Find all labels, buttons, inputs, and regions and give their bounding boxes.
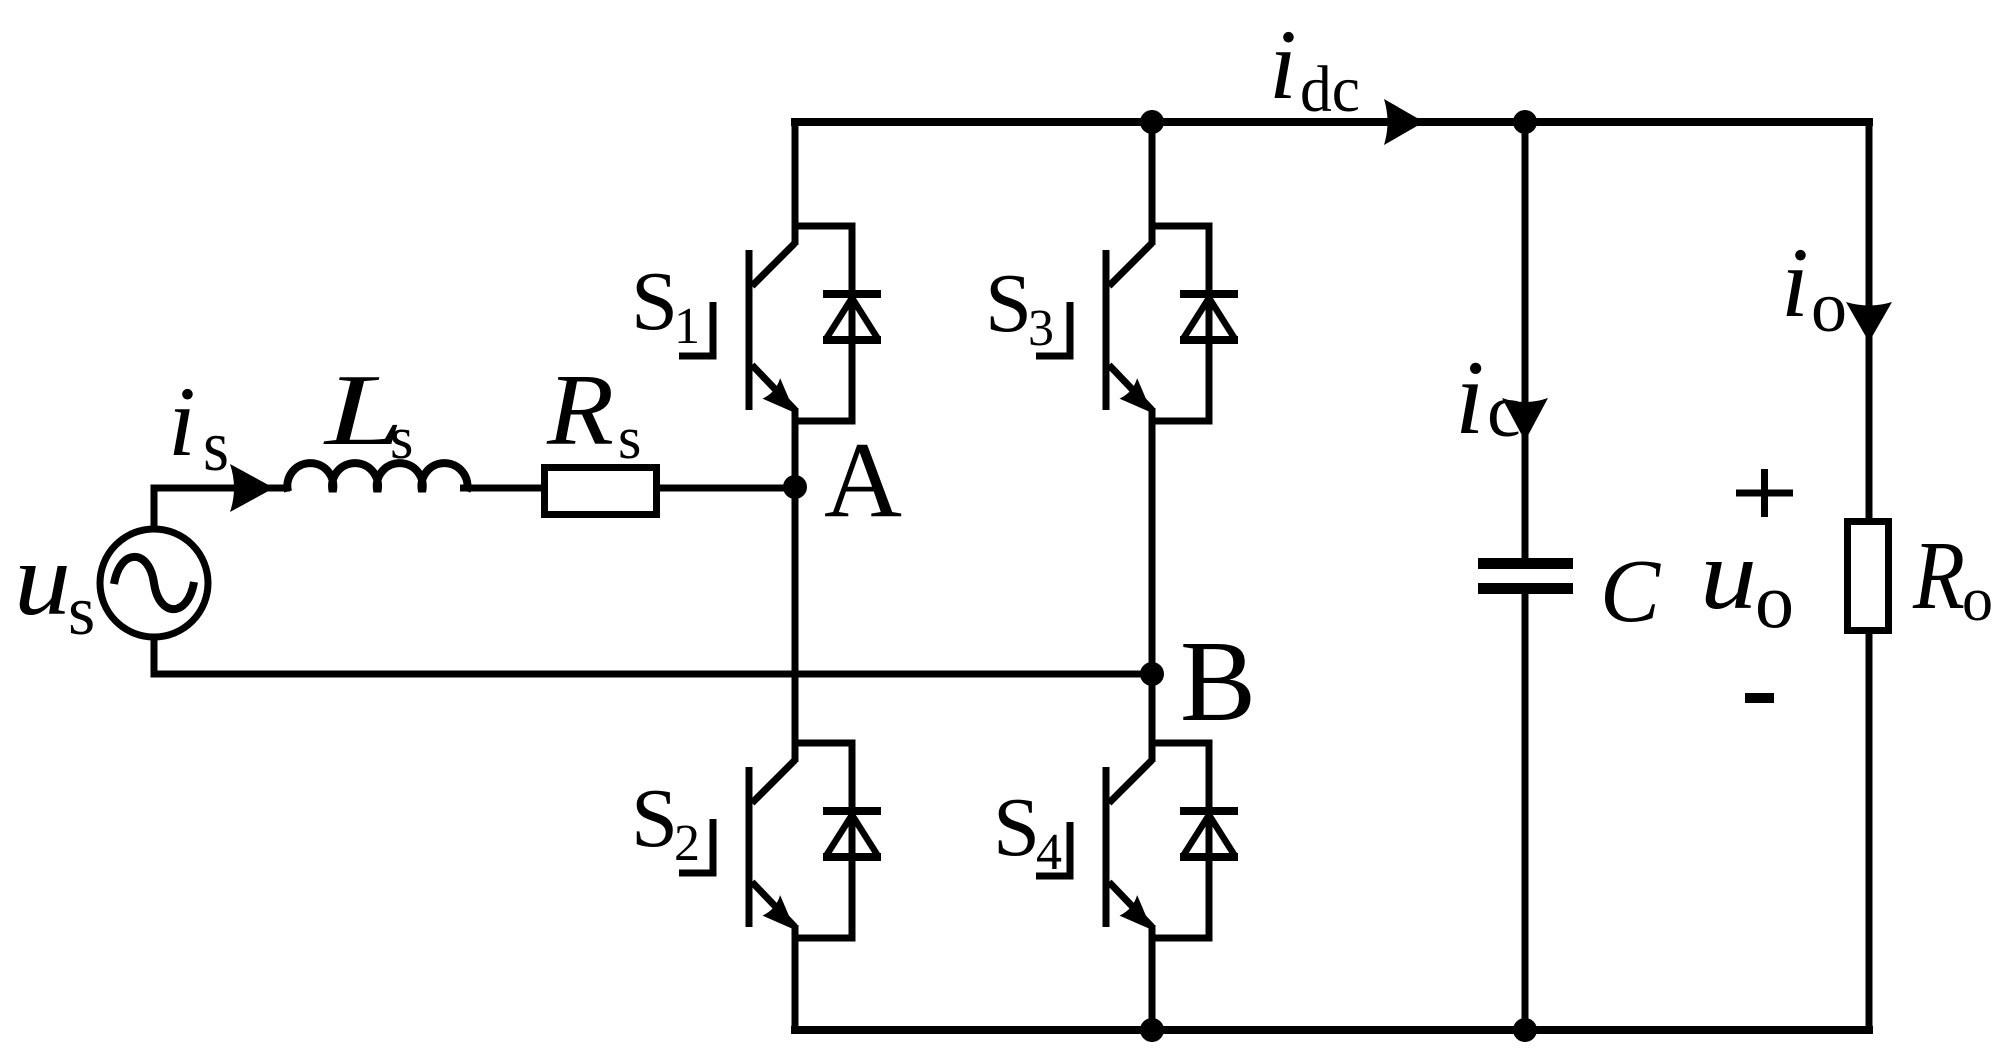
svg-text:S: S [993, 781, 1040, 874]
wire: right bridge leg lower segment (S4 emitter to bottom bus) [1149, 925, 1156, 1033]
wire: ac line between Rs and node A [656, 485, 795, 492]
svg-text:s: s [203, 406, 229, 486]
svg-text:2: 2 [674, 815, 700, 872]
wire: left bridge leg middle segment (S1 emitter through node A to S2 collector) [792, 408, 799, 762]
svg-text:C: C [1600, 542, 1661, 641]
svg-text:i: i [1781, 227, 1809, 338]
gate hook of S4 [1036, 822, 1070, 876]
wire: capacitor branch upper segment [1522, 122, 1529, 559]
resistor Rs [545, 468, 657, 515]
wire: bottom dc bus [791, 1026, 1873, 1034]
wire: left bridge leg upper segment (top bus to S1 collector) [792, 118, 799, 245]
svg-text:S: S [631, 255, 678, 348]
svg-text:i: i [168, 366, 196, 477]
transistor S1 (IGBT with anti-parallel diode) [749, 226, 881, 422]
svg-text:o: o [1962, 566, 1993, 634]
gate hook of S3 [1036, 302, 1070, 356]
wire: load branch upper segment (top bus to Ro) [1866, 118, 1873, 521]
wire: ac source bottom lead and return wire to node B [154, 637, 1152, 674]
svg-text:o: o [1755, 557, 1794, 644]
wire: right bridge leg middle segment (S3 emitter through node B to S4 collector) [1149, 408, 1156, 762]
plus sign of uo [1736, 469, 1793, 517]
svg-text:i: i [1269, 9, 1297, 120]
svg-text:i: i [1455, 339, 1484, 456]
arrow ic (capacitor current) [1502, 398, 1548, 441]
source us (ac voltage source circle) [100, 529, 208, 637]
wire: load branch lower segment (Ro to bottom bus) [1866, 631, 1873, 1033]
gate hook of S2 [679, 819, 713, 873]
wire: left bridge leg lower segment (S2 emitter to bottom bus) [792, 925, 799, 1033]
svg-text:u: u [14, 522, 71, 637]
node B junction dot [1140, 662, 1164, 686]
node dot top bus at right leg [1140, 110, 1164, 134]
svg-text:u: u [1700, 519, 1757, 630]
svg-text:s: s [618, 405, 641, 471]
svg-text:3: 3 [1028, 300, 1054, 357]
wire: ac source top lead [154, 488, 290, 530]
transistor S4 (IGBT with anti-parallel diode) [1106, 743, 1238, 939]
svg-text:dc: dc [1300, 53, 1360, 126]
svg-text:B: B [1180, 618, 1256, 746]
inductor Ls [287, 463, 467, 491]
svg-text:S: S [631, 772, 678, 865]
svg-text:c: c [1487, 369, 1521, 453]
wire: capacitor branch lower segment [1522, 593, 1529, 1030]
capacitor C bottom plate [1478, 583, 1573, 594]
wire: ac line between inductor and Rs [460, 485, 545, 492]
svg-text:o: o [1811, 267, 1847, 347]
svg-text:A: A [824, 421, 902, 540]
transistor S3 (IGBT with anti-parallel diode) [1106, 226, 1238, 422]
gate hook of S1 [679, 302, 713, 356]
wire: top dc bus [791, 118, 1873, 126]
node dot bottom bus at right leg [1140, 1018, 1164, 1042]
arrow idc (dc-link current) [1384, 99, 1424, 145]
node dot top bus at capacitor branch [1513, 110, 1537, 134]
transistor S2 (IGBT with anti-parallel diode) [749, 743, 881, 939]
svg-text:R: R [546, 354, 614, 467]
resistor Ro [1848, 522, 1889, 631]
svg-text:4: 4 [1036, 824, 1062, 881]
arrow io (output current) [1846, 302, 1892, 342]
svg-text:1: 1 [674, 298, 700, 355]
sine wave inside source [114, 557, 194, 609]
minus sign of uo [1745, 693, 1774, 703]
svg-text:s: s [390, 405, 413, 471]
capacitor C top plate [1478, 558, 1573, 569]
svg-text:R: R [1912, 522, 1965, 630]
wire: right bridge leg upper segment (top bus to S3 collector) [1149, 118, 1156, 245]
node A junction dot [783, 475, 807, 499]
node dot bottom bus at capacitor branch [1513, 1018, 1537, 1042]
arrow is (source current) [230, 464, 274, 512]
svg-text:S: S [985, 257, 1032, 350]
svg-text:s: s [68, 573, 95, 650]
